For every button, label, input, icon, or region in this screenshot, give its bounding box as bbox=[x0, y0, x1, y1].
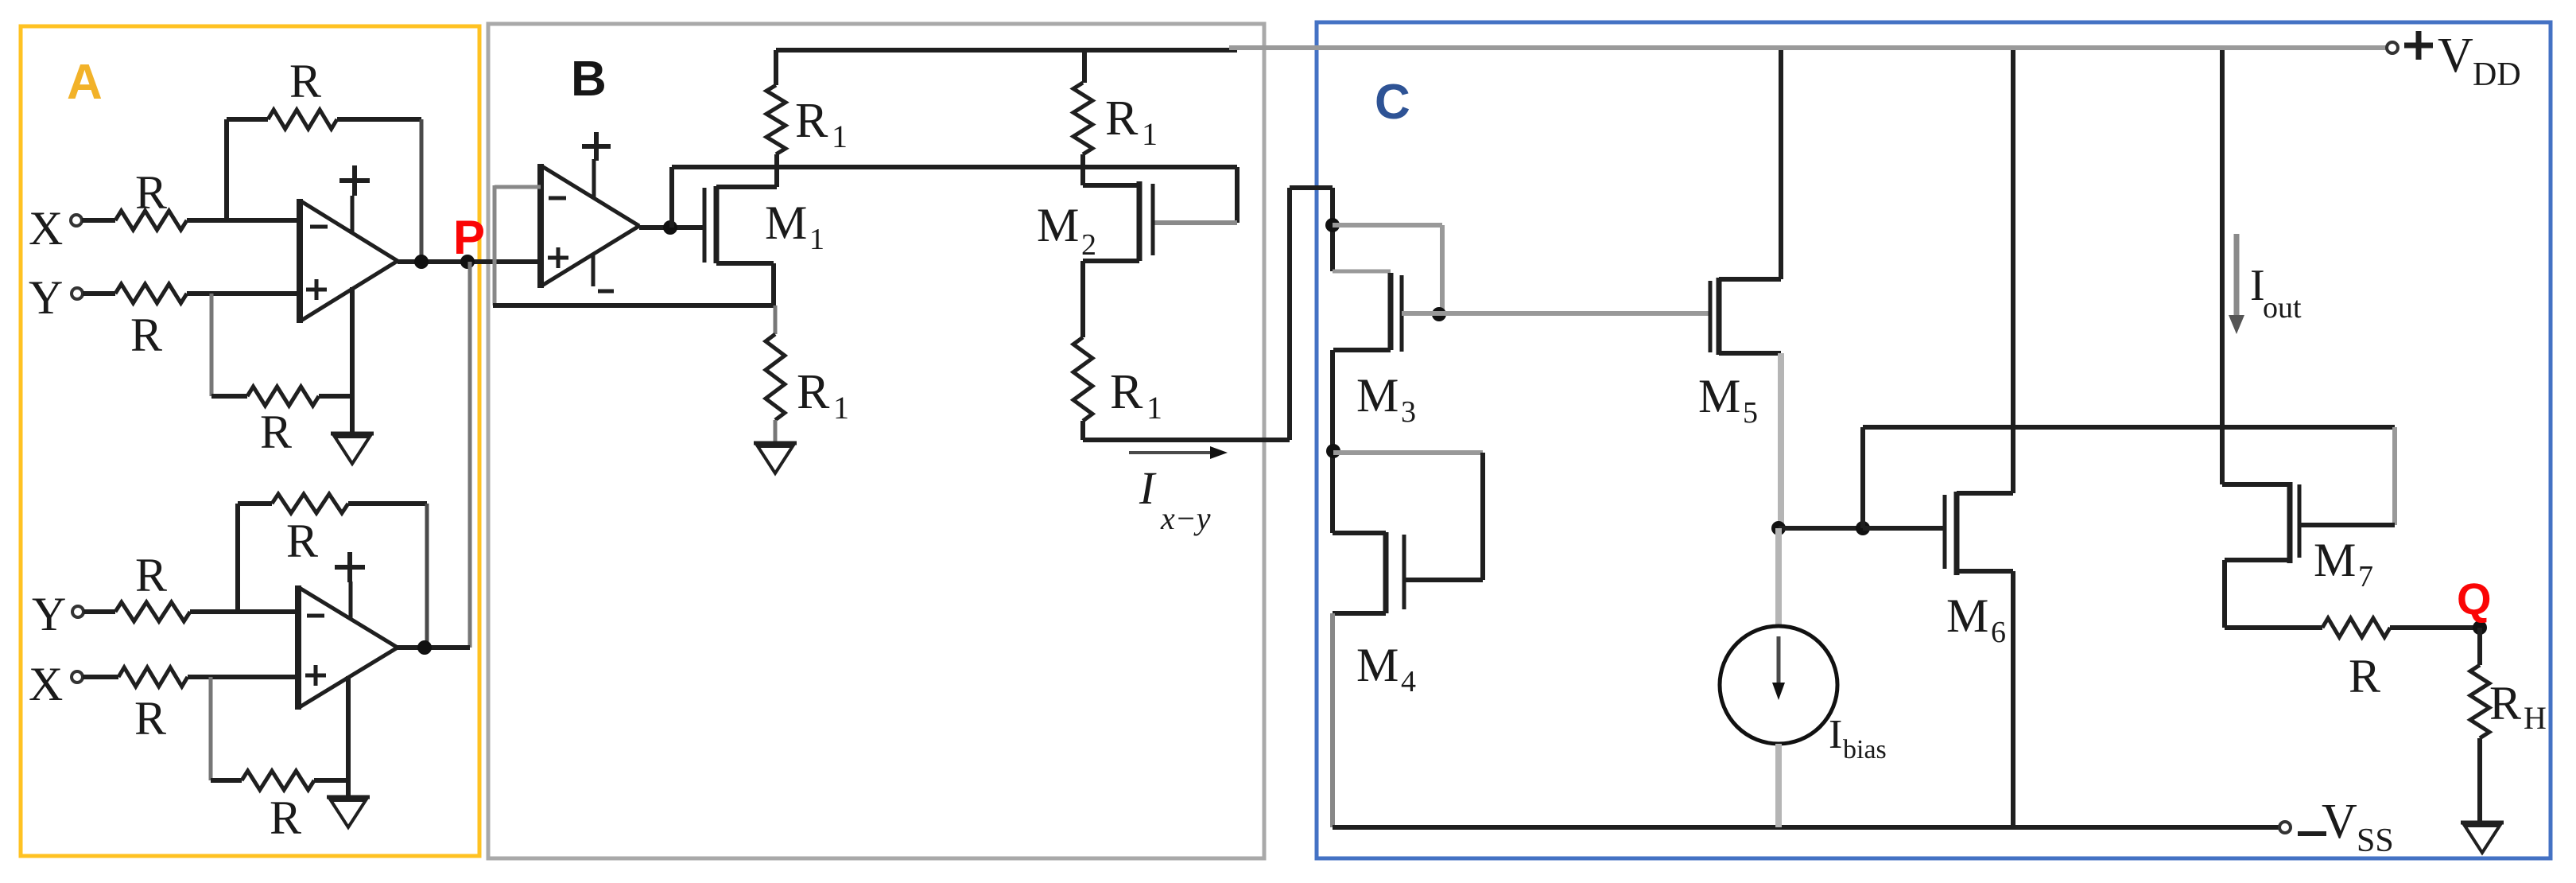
svg-text:H: H bbox=[2524, 700, 2547, 736]
svg-text:I: I bbox=[1139, 462, 1157, 514]
svg-text:R: R bbox=[286, 515, 318, 567]
svg-text:M: M bbox=[1356, 639, 1399, 691]
svg-text:M: M bbox=[1037, 199, 1079, 251]
svg-text:C: C bbox=[1375, 75, 1410, 130]
svg-text:B: B bbox=[571, 52, 607, 107]
svg-text:1: 1 bbox=[1146, 390, 1162, 426]
svg-text:R: R bbox=[130, 309, 162, 361]
svg-text:R: R bbox=[289, 55, 321, 107]
svg-text:M: M bbox=[765, 196, 807, 249]
svg-text:V: V bbox=[2438, 29, 2473, 83]
svg-text:6: 6 bbox=[1991, 616, 2006, 649]
svg-text:R: R bbox=[135, 549, 167, 601]
svg-text:1: 1 bbox=[809, 223, 824, 256]
svg-text:R: R bbox=[1105, 91, 1139, 146]
svg-text:Y: Y bbox=[32, 588, 66, 640]
svg-text:Y: Y bbox=[29, 271, 63, 324]
svg-text:out: out bbox=[2263, 291, 2302, 325]
svg-text:R: R bbox=[134, 692, 166, 745]
svg-text:X: X bbox=[29, 202, 63, 255]
svg-text:R: R bbox=[1110, 365, 1143, 419]
svg-text:M: M bbox=[1946, 589, 1988, 642]
svg-text:R: R bbox=[797, 365, 830, 419]
svg-text:R: R bbox=[2489, 677, 2521, 729]
svg-text:1: 1 bbox=[833, 390, 849, 426]
svg-text:P: P bbox=[453, 211, 485, 264]
svg-text:R: R bbox=[270, 792, 301, 844]
svg-text:2: 2 bbox=[1081, 228, 1096, 262]
svg-text:R: R bbox=[135, 166, 167, 219]
svg-text:V: V bbox=[2322, 795, 2357, 849]
svg-text:SS: SS bbox=[2357, 823, 2394, 859]
svg-text:1: 1 bbox=[1142, 116, 1158, 152]
svg-text:X: X bbox=[29, 658, 63, 710]
svg-text:A: A bbox=[67, 55, 103, 110]
svg-text:R: R bbox=[2349, 650, 2380, 702]
svg-text:5: 5 bbox=[1743, 396, 1758, 430]
svg-text:M: M bbox=[2314, 534, 2356, 586]
svg-text:R: R bbox=[795, 94, 828, 148]
svg-text:R: R bbox=[260, 406, 292, 458]
svg-text:x−y: x−y bbox=[1160, 500, 1211, 536]
svg-text:M: M bbox=[1356, 369, 1399, 422]
svg-text:M: M bbox=[1698, 370, 1740, 422]
svg-text:Q: Q bbox=[2457, 574, 2492, 624]
svg-text:bias: bias bbox=[1843, 735, 1887, 764]
svg-text:4: 4 bbox=[1401, 665, 1416, 698]
svg-text:DD: DD bbox=[2473, 56, 2521, 93]
svg-text:7: 7 bbox=[2358, 560, 2373, 593]
svg-text:1: 1 bbox=[832, 119, 848, 154]
svg-text:3: 3 bbox=[1401, 395, 1416, 429]
svg-text:I: I bbox=[1829, 712, 1842, 757]
